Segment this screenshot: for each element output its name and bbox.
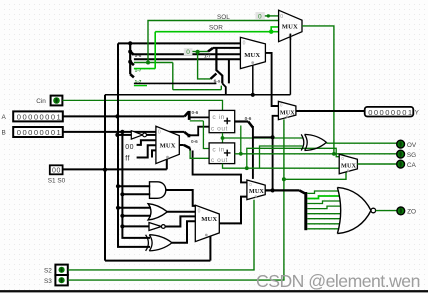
- splitter B combiner 0-6: [184, 145, 190, 148]
- wire select top run y=94.8: [105, 34, 290, 95]
- OR gate: [148, 204, 167, 220]
- input pin S3: [44, 275, 68, 285]
- wire A: [63, 115, 185, 117]
- wire S1S0 bus right: [63, 156, 167, 169]
- svg-text:MUX: MUX: [282, 24, 298, 31]
- input pin A: [2, 111, 63, 121]
- svg-text:MUX: MUX: [341, 162, 357, 169]
- node S3 branch: [282, 177, 286, 181]
- splitter S1 0-6: [130, 52, 134, 55]
- wire MUX3 out to Y: [296, 110, 365, 112]
- splitter S3 1-7: [130, 74, 134, 77]
- splitter S2 1-7: [130, 62, 134, 65]
- wire MUX1 select: [289, 34, 291, 40]
- XOR gate lower: [146, 235, 172, 251]
- input pin S2: [44, 265, 68, 275]
- wire S bus vertical and bottom run: [105, 95, 210, 261]
- wire A0-6 to adder1 inA: [189, 116, 209, 118]
- svg-text:SG: SG: [407, 152, 416, 159]
- output pin Y: [365, 107, 420, 117]
- wire black splitter3 to knot: [134, 82, 217, 84]
- node SOL junction: [146, 61, 150, 65]
- wire A top run y=43.4 to MUX2 in1: [118, 42, 240, 44]
- wire S2 to MUX4 select: [68, 200, 254, 270]
- output pin SG: [397, 150, 416, 159]
- wire probe2 branch down to 6-s splitter: [198, 52, 211, 79]
- knot: splitter 1-7 with probe: [184, 48, 193, 56]
- wire splitter to MUX2 in4: [134, 59, 241, 83]
- op-amp? no: MUX1 (top 4:1): [279, 10, 302, 42]
- svg-text:0-6: 0-6: [191, 139, 198, 144]
- wire adder1 cout green: [223, 133, 303, 138]
- wire MUX1 output to SG/MUX6 chain: [302, 26, 334, 154]
- MUX6 (carry mux): [339, 154, 357, 174]
- wire probe2 green: [192, 51, 208, 53]
- XOR gate (overflow): [301, 134, 326, 150]
- svg-text:SOL: SOL: [217, 14, 230, 21]
- wire AND inputs: [118, 186, 150, 194]
- wire green A bit7 to adder2 inA: [190, 121, 209, 149]
- svg-text:Y: Y: [415, 109, 420, 116]
- svg-text:00: 00: [52, 168, 61, 175]
- NOT gate: [149, 223, 165, 231]
- wire Cin to adder1 c-in: [62, 100, 222, 110]
- svg-text:6-s: 6-s: [214, 79, 221, 84]
- svg-text:0: 0: [280, 14, 283, 20]
- wire knot down to select run: [222, 83, 226, 94]
- wire combiner down, to MUX4 in1: [190, 148, 247, 182]
- wire SOL chain (dark green): [148, 21, 279, 63]
- canvas bottom border: [0, 290, 428, 292]
- wire green combiner to adder2 inB: [190, 151, 209, 159]
- input pin B: [2, 127, 63, 137]
- svg-text:0: 0: [186, 49, 190, 56]
- node B junction: [120, 130, 124, 134]
- input pin Cin: [36, 96, 62, 106]
- wire adder1 sum out + splitter: [235, 120, 249, 122]
- svg-text:CA: CA: [407, 162, 417, 169]
- svg-text:MUX: MUX: [160, 143, 176, 150]
- wire NOT input: [122, 225, 149, 227]
- wire S3 branch to MUX6 select: [284, 172, 346, 179]
- wire OR inputs: [118, 208, 151, 216]
- MUX4 (mid mux): [247, 180, 265, 200]
- NOT gate (MUX3b cluster): [117, 134, 131, 136]
- output pin CA: [397, 160, 417, 169]
- wire MUX4 in2 from MUX5 out: [219, 197, 247, 224]
- svg-text:OV: OV: [407, 142, 417, 149]
- svg-text:00: 00: [125, 144, 134, 151]
- wire OR out to MUX5: [167, 211, 195, 213]
- splitter A 0-6: [185, 112, 189, 117]
- wire carry branch to MUX6 in1: [247, 148, 339, 168]
- svg-text:CSDN @element.wen: CSDN @element.wen: [256, 271, 420, 291]
- svg-text:0-6: 0-6: [245, 116, 252, 121]
- svg-text:0: 0: [198, 208, 201, 214]
- adder U1 (8-bit): [209, 110, 235, 132]
- svg-text:0: 0: [258, 13, 262, 20]
- svg-text:MUX: MUX: [249, 188, 265, 195]
- svg-text:A: A: [2, 114, 7, 121]
- node select junction: [251, 93, 255, 97]
- node SOR junction: [269, 30, 273, 34]
- svg-text:c out: c out: [211, 126, 228, 133]
- svg-text:B: B: [2, 130, 6, 137]
- wire XOR out to MUX5 in4: [172, 221, 195, 243]
- splitter 1-7 (knot): [208, 48, 213, 52]
- wire B: [63, 131, 184, 133]
- wire MUX6 out to CA: [357, 163, 397, 165]
- splitter to NOR (spine): [299, 190, 305, 193]
- svg-text:0-6: 0-6: [192, 110, 199, 115]
- svg-text:SOR: SOR: [209, 24, 223, 31]
- MUX3 (result mux to Y): [278, 101, 296, 119]
- svg-text:c in: c in: [212, 114, 224, 121]
- svg-text:S1 S0: S1 S0: [48, 178, 66, 185]
- wire S3 to MUX3 select: [68, 119, 284, 280]
- svg-text:ff: ff: [125, 155, 130, 162]
- wire bright stub splitter3: [134, 85, 147, 87]
- wire SOR to MUX1 in3/in4: [271, 27, 278, 32]
- AND gate: [150, 182, 166, 199]
- svg-text:Cin: Cin: [36, 98, 46, 105]
- splitter B 0-6: [184, 132, 188, 135]
- svg-text:00000001: 00000001: [17, 128, 62, 137]
- MUX5 (logic mux 4:1): [195, 205, 219, 241]
- input pin S1 S0: [48, 165, 66, 184]
- MUX2 (4:1 shifter mux): [240, 37, 265, 68]
- wire MUX2 in2 from knot: [213, 47, 240, 49]
- svg-text:MUX: MUX: [280, 110, 295, 116]
- wire adder1 inB from B splitter: [189, 127, 209, 136]
- wire probe to MUX1 in1: [265, 15, 279, 17]
- node x118 taps: [128, 41, 132, 45]
- wire MUX2 output down to MUX4-out junction: [265, 53, 278, 106]
- svg-text:1-7: 1-7: [204, 53, 211, 58]
- wire dark green s2-pin to knot: [134, 63, 221, 90]
- MUX3b (logic-op mux 4:1): [156, 126, 179, 163]
- svg-text:MUX: MUX: [244, 52, 260, 59]
- wire NOT out to MUX5 in3: [165, 216, 195, 226]
- wire XOR out to OV: [326, 142, 397, 144]
- wire B vertical x=122.4 down to XOR2 in1: [122, 132, 150, 238]
- wire SOR chain (bright green): [134, 32, 271, 69]
- adder U2 (bit7): [209, 143, 235, 164]
- wire MUX3b out to combiner: [179, 144, 184, 146]
- node S bus junction: [103, 168, 107, 172]
- wire MUX4 out to splitter spine: [265, 189, 299, 191]
- svg-text:0: 0: [243, 41, 246, 47]
- wire NOR out to ZO: [376, 210, 397, 212]
- svg-text:00000001: 00000001: [17, 113, 62, 122]
- wire splitter to MUX2 in3: [134, 53, 241, 55]
- output pin ZO: [397, 207, 416, 216]
- svg-text:MUX: MUX: [201, 216, 217, 223]
- wire AND out to MUX5 in1: [166, 190, 196, 206]
- wire adder2 sum green to SG line: [235, 153, 397, 155]
- wire spine branch to MUX3 in2: [253, 116, 279, 191]
- node A junction: [115, 114, 119, 118]
- svg-text:S3: S3: [44, 278, 52, 285]
- splitter column x=130.2: [129, 43, 131, 74]
- probe 0 (top, feeds MUX1 in1): [255, 12, 264, 20]
- wire branch up to XOR in2: [260, 146, 303, 168]
- staircase wires into NOR: [307, 191, 339, 193]
- svg-text:S2: S2: [44, 268, 52, 275]
- svg-text:00000001: 00000001: [368, 108, 413, 117]
- output pin OV: [397, 140, 417, 149]
- node MUX1 out branch to SG: [332, 152, 336, 156]
- wire adder2 cout green long run to MUX6 in2: [223, 164, 340, 169]
- wire A vertical x=118 down to XOR2 in2: [118, 43, 150, 247]
- svg-text:c out: c out: [211, 157, 228, 164]
- wire splitter spine down to MUX4: [252, 126, 254, 179]
- NOR gate (zero detect): [337, 187, 375, 233]
- svg-text:ZO: ZO: [407, 209, 416, 216]
- svg-text:c in: c in: [212, 146, 224, 153]
- svg-text:0: 0: [158, 130, 161, 136]
